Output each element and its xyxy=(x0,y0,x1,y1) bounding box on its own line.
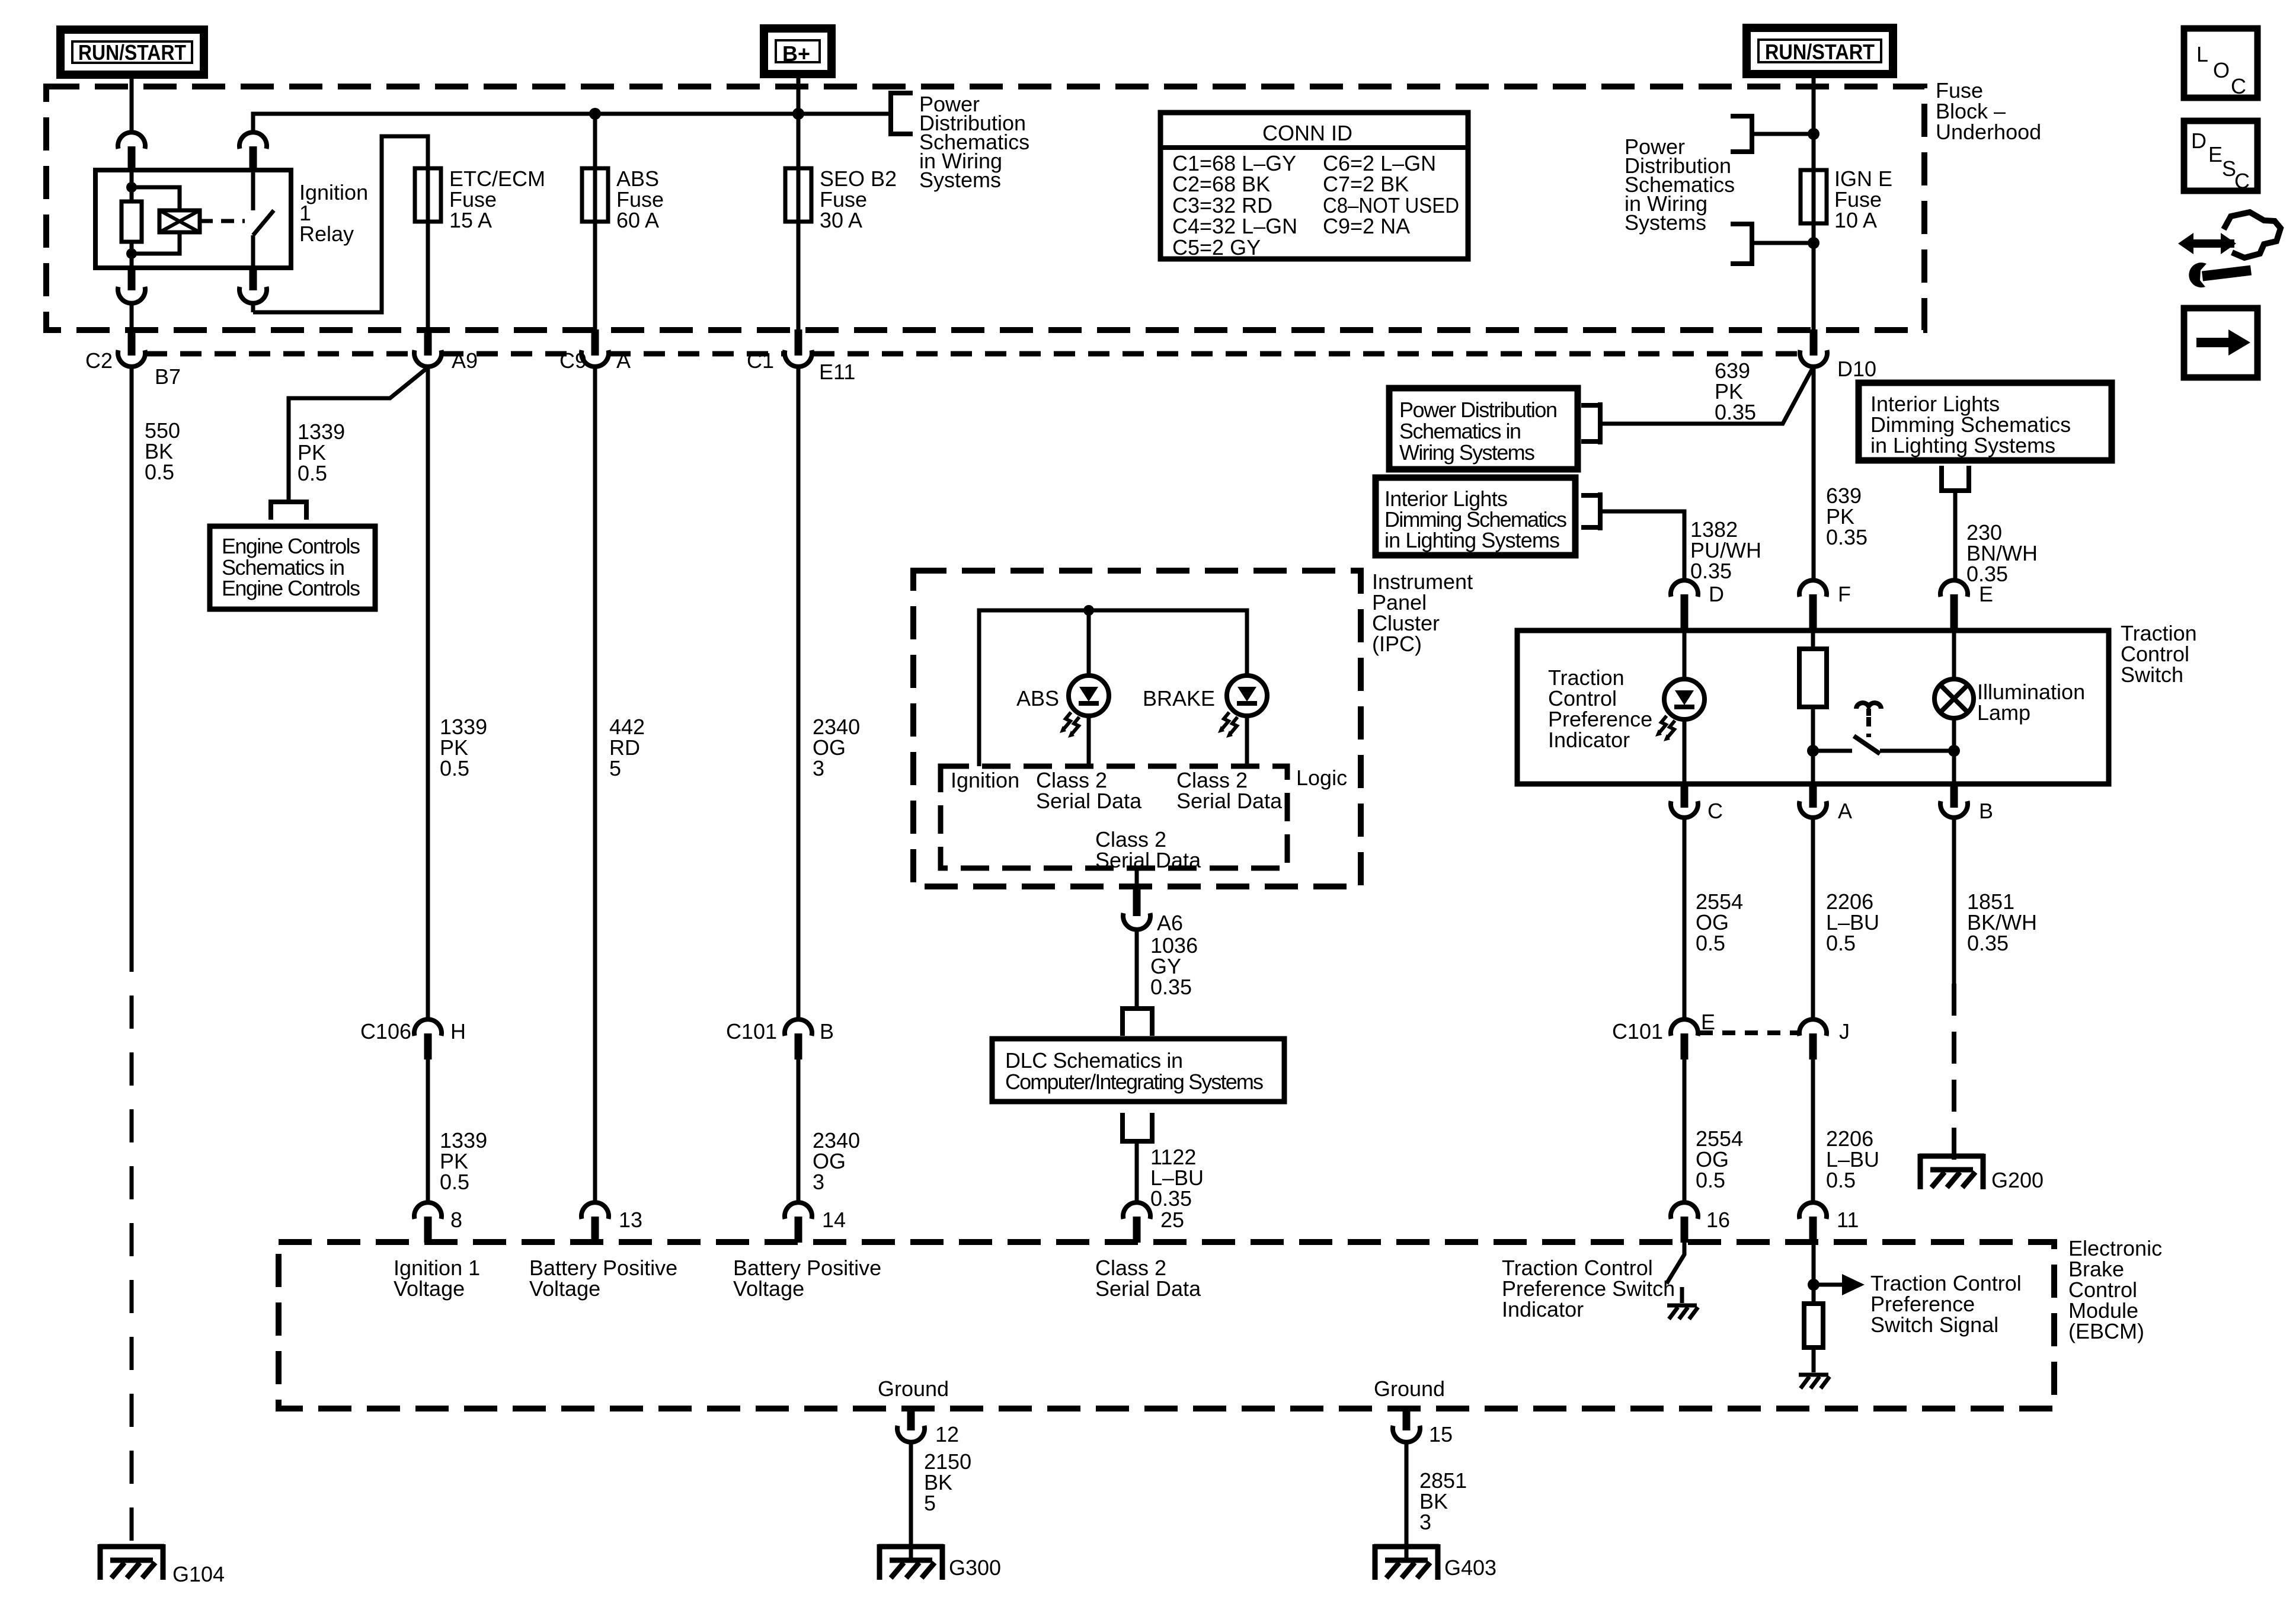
relay coil branch wires xyxy=(132,170,180,268)
connector C1/E11 xyxy=(747,329,855,384)
svg-text:C4=32 L–GN: C4=32 L–GN xyxy=(1172,214,1297,238)
C101 jumper dotted line xyxy=(1700,1030,1799,1035)
EBCM switch lower stub xyxy=(1680,1287,1684,1303)
wire C101 J to EBCM pin 11 xyxy=(1811,1060,1815,1202)
wire 1382 PU/WH label xyxy=(1690,517,1761,583)
traction control preference switch indicator label xyxy=(1502,1256,1675,1321)
svg-text:A: A xyxy=(616,348,631,373)
svg-text:0.5: 0.5 xyxy=(145,460,174,484)
svg-text:0.5: 0.5 xyxy=(1696,931,1725,955)
wire C to C101 E xyxy=(1683,818,1687,1019)
staple bracket to Engine Controls xyxy=(268,502,309,520)
IGN E fuse label xyxy=(1834,167,1892,232)
wrench icon xyxy=(2189,263,2251,287)
node switch signal xyxy=(1808,1279,1819,1291)
SEO B2 fuse xyxy=(785,168,811,222)
svg-text:0.5: 0.5 xyxy=(1826,1168,1856,1192)
traction control preference indicator label xyxy=(1548,665,1652,752)
svg-text:0.5: 0.5 xyxy=(440,1170,469,1194)
EBCM switch blade xyxy=(1667,1243,1684,1283)
svg-text:D10: D10 xyxy=(1837,357,1876,381)
svg-text:B+: B+ xyxy=(782,41,810,66)
B+ power label box xyxy=(764,28,832,74)
wire 550 BK dashed to G104 xyxy=(130,939,134,1560)
Fuse Block - Underhood dashed box xyxy=(46,87,1924,330)
wire bus to SEO B2 fuse xyxy=(797,114,801,331)
ABS fuse label xyxy=(616,167,664,232)
wire C101 B to EBCM pin 14 xyxy=(797,1060,801,1202)
Class 2 Serial Data label (left) xyxy=(1036,768,1142,813)
svg-text:(EBCM): (EBCM) xyxy=(2068,1319,2144,1343)
svg-text:8: 8 xyxy=(450,1208,462,1232)
Class 2 Serial Data label (center) xyxy=(1095,827,1201,872)
reference bracket to Power Distribution (top left) xyxy=(891,91,913,136)
Traction Control Switch box xyxy=(1517,630,2109,784)
relay label xyxy=(299,180,368,246)
svg-text:5: 5 xyxy=(924,1491,936,1515)
relay switch contact and blade xyxy=(253,170,274,268)
node bus-ABS xyxy=(589,108,601,120)
svg-text:3: 3 xyxy=(813,1170,824,1194)
svg-text:Voltage: Voltage xyxy=(529,1276,600,1301)
wire 2150 BK to G300 xyxy=(909,1442,913,1560)
svg-text:0.35: 0.35 xyxy=(1150,1186,1192,1211)
ground G403 xyxy=(1374,1544,1496,1580)
wire B solid xyxy=(1952,818,1956,984)
svg-text:12: 12 xyxy=(935,1422,959,1446)
connector pin 14 xyxy=(785,1202,846,1243)
node relay coil top xyxy=(126,182,137,193)
svg-text:C106: C106 xyxy=(360,1019,411,1044)
wire 639 PK label (upper) xyxy=(1715,359,1756,424)
svg-text:Schematics in: Schematics in xyxy=(1399,419,1521,443)
svg-text:0.35: 0.35 xyxy=(1150,975,1192,999)
DLC reference box xyxy=(992,1039,1284,1102)
wire resistor to ground xyxy=(1812,1347,1816,1372)
wire bus to ABS fuse xyxy=(593,114,597,331)
svg-text:DLC Schematics in: DLC Schematics in xyxy=(1005,1048,1183,1073)
svg-text:RUN/START: RUN/START xyxy=(1765,40,1875,64)
wire 2851 BK label xyxy=(1419,1468,1467,1534)
wire to upper right bracket xyxy=(1752,132,1814,136)
connector C xyxy=(1671,784,1723,823)
svg-text:F: F xyxy=(1838,582,1851,606)
traction control preference switch signal label xyxy=(1870,1271,2022,1337)
svg-text:C: C xyxy=(2234,169,2250,193)
Electronic Brake Control Module dashed box xyxy=(279,1242,2054,1409)
RUN/START power label box (right) xyxy=(1747,28,1893,74)
svg-text:C7=2 BK: C7=2 BK xyxy=(1323,172,1409,196)
node switch left xyxy=(1807,745,1819,757)
ground G200 xyxy=(1919,1154,2044,1192)
wire 1122 L-BU label xyxy=(1150,1145,1204,1211)
svg-text:0.5: 0.5 xyxy=(298,461,327,485)
wire D10 to F xyxy=(1812,367,1816,579)
ignition 1 relay box xyxy=(95,170,291,268)
wire 639 PK label (lower) xyxy=(1826,484,1868,549)
svg-text:G104: G104 xyxy=(172,1562,225,1586)
svg-text:Switch: Switch xyxy=(2121,662,2183,687)
svg-text:11: 11 xyxy=(1837,1208,1859,1232)
LOC icon box xyxy=(2184,28,2257,98)
ground G300 xyxy=(878,1544,1001,1580)
Class 2 Serial Data label (right) xyxy=(1176,768,1283,813)
svg-text:C101: C101 xyxy=(1612,1019,1663,1044)
wire 230 BN/WH label xyxy=(1966,520,2038,586)
connector pin 16 xyxy=(1671,1202,1730,1243)
svg-text:14: 14 xyxy=(822,1208,846,1232)
wire C106 to EBCM pin 8 xyxy=(426,1060,430,1202)
Interior Lights Dimming reference box (right) xyxy=(1859,383,2112,460)
EBCM internal ground xyxy=(1799,1375,1830,1388)
wire C101 E to EBCM pin 16 xyxy=(1683,1060,1687,1202)
wire 1339 PK branch label xyxy=(298,420,345,485)
connector D xyxy=(1671,580,1724,630)
wire 2206 L-BU label (lower) xyxy=(1826,1126,1879,1192)
svg-text:CONN ID: CONN ID xyxy=(1262,121,1352,145)
connector pin 13 xyxy=(581,1202,642,1243)
switch signal arrow xyxy=(1814,1274,1865,1295)
svg-text:Serial Data: Serial Data xyxy=(1095,1276,1201,1301)
svg-text:E: E xyxy=(1979,582,1993,606)
wire 1339 PK label (mid) xyxy=(440,715,487,780)
traction control preference indicator LED xyxy=(1655,679,1705,741)
svg-text:Systems: Systems xyxy=(919,168,1001,192)
svg-text:Underhood: Underhood xyxy=(1936,120,2041,144)
Power Distribution Schematics reference box xyxy=(1389,388,1578,469)
svg-text:Relay: Relay xyxy=(299,222,354,246)
svg-text:Power Distribution: Power Distribution xyxy=(1399,398,1558,422)
wire RUN/START right to IGN E fuse xyxy=(1812,74,1816,331)
connector F xyxy=(1799,580,1851,630)
svg-text:O: O xyxy=(2213,58,2230,82)
svg-text:0.5: 0.5 xyxy=(1826,931,1856,955)
switch contact line left xyxy=(1813,749,1852,753)
switch pull symbol xyxy=(1856,703,1881,716)
Engine Controls reference box xyxy=(210,526,375,609)
switch contact line right xyxy=(1880,749,1954,753)
IPC internal bus xyxy=(979,610,1247,766)
connector pin 25 xyxy=(1123,1202,1184,1243)
wire 2206 L-BU label (upper) xyxy=(1826,889,1879,955)
next-page arrow icon box xyxy=(2184,308,2257,377)
wire DLC to EBCM pin 25 xyxy=(1135,1141,1139,1202)
connector E xyxy=(1940,580,1993,630)
DESC icon box xyxy=(2184,121,2257,193)
Logic dashed box xyxy=(941,766,1287,868)
wire logic to A6 xyxy=(1135,868,1139,886)
wire Interior Lights to E xyxy=(1953,491,1958,579)
switch actuation dashes xyxy=(1866,717,1871,737)
Power Distribution Schematics note (top left) xyxy=(919,92,1029,192)
wire to lower right bracket xyxy=(1752,241,1814,245)
connector C2/B7 xyxy=(85,329,181,389)
wire pin 11 to node xyxy=(1812,1243,1816,1304)
staple bracket to DLC box xyxy=(1120,1009,1155,1036)
svg-text:in Lighting Systems: in Lighting Systems xyxy=(1870,433,2055,457)
staple bracket from Interior Lights box (right) xyxy=(1939,466,1971,491)
svg-text:C9=2 NA: C9=2 NA xyxy=(1323,214,1410,238)
wire 1851 BK/WH label xyxy=(1967,889,2037,955)
relay actuation dashed link xyxy=(200,219,245,223)
Ignition 1 Voltage label xyxy=(394,1256,480,1301)
svg-text:Serial Data: Serial Data xyxy=(1176,789,1283,813)
connector pin 12 xyxy=(897,1407,959,1446)
wire A to C101 J xyxy=(1811,818,1815,1019)
Instrument Panel Cluster dashed box xyxy=(913,571,1361,886)
svg-text:G403: G403 xyxy=(1444,1555,1496,1580)
svg-text:B: B xyxy=(1979,799,1993,823)
wire 1036 GY label xyxy=(1150,933,1198,999)
svg-text:G200: G200 xyxy=(1991,1168,2044,1192)
svg-text:Engine Controls: Engine Controls xyxy=(222,534,360,558)
node IPC bus xyxy=(1083,605,1094,616)
wire ABS indicator xyxy=(1087,610,1091,766)
connector A xyxy=(1799,784,1852,823)
relay switch-side top terminal xyxy=(239,132,267,170)
diagnostic car icon xyxy=(2178,212,2281,258)
connector C101/B xyxy=(726,1019,834,1060)
switch blade xyxy=(1854,736,1880,754)
node bus-B+ xyxy=(792,108,804,120)
wire D to indicator xyxy=(1683,630,1687,784)
illumination lamp label xyxy=(1977,680,2085,725)
svg-text:Ground: Ground xyxy=(878,1377,949,1401)
svg-text:30 A: 30 A xyxy=(820,208,862,232)
connector pin 15 xyxy=(1393,1407,1453,1446)
svg-text:BRAKE: BRAKE xyxy=(1143,686,1215,710)
SEO B2 fuse label xyxy=(820,167,897,232)
connector pin 8 xyxy=(414,1202,462,1243)
connector C101 J xyxy=(1799,1019,1850,1060)
staple bracket from DLC box xyxy=(1120,1113,1155,1141)
svg-text:Voltage: Voltage xyxy=(733,1276,804,1301)
wire C9 to EBCM pin 13 xyxy=(593,367,597,1202)
Power Distribution Schematics note (top right) xyxy=(1625,135,1735,235)
svg-text:Systems: Systems xyxy=(1625,210,1706,235)
Battery Positive Voltage label (14) xyxy=(733,1256,881,1301)
ABS fuse xyxy=(582,168,608,222)
svg-text:C2: C2 xyxy=(85,348,113,373)
svg-text:Ignition: Ignition xyxy=(951,768,1019,792)
wire 2150 BK label xyxy=(924,1449,971,1515)
wire 2554 OG label (upper) xyxy=(1696,889,1743,955)
svg-text:(IPC): (IPC) xyxy=(1372,632,1422,656)
svg-text:3: 3 xyxy=(813,756,824,780)
svg-text:25: 25 xyxy=(1160,1208,1184,1232)
svg-text:G300: G300 xyxy=(949,1555,1001,1580)
IPC label xyxy=(1372,569,1473,656)
reference bracket upper (Power Distribution right) xyxy=(1731,114,1752,154)
svg-text:0.35: 0.35 xyxy=(1690,559,1732,583)
svg-text:D: D xyxy=(1709,582,1724,606)
svg-text:C9: C9 xyxy=(559,348,587,373)
svg-text:E11: E11 xyxy=(819,360,855,384)
bus wire from relay switch to bracket xyxy=(253,114,888,130)
svg-text:Computer/Integrating Systems: Computer/Integrating Systems xyxy=(1005,1070,1264,1094)
node switch right xyxy=(1948,745,1960,757)
connector D10 xyxy=(1800,329,1876,381)
relay coil xyxy=(159,210,200,232)
svg-text:C: C xyxy=(2231,74,2246,98)
connector C9/A xyxy=(559,329,631,373)
relay resistor xyxy=(121,201,142,242)
svg-text:H: H xyxy=(450,1019,466,1044)
ETC/ECM fuse label xyxy=(449,167,545,232)
svg-text:A9: A9 xyxy=(452,348,478,373)
Battery Positive Voltage label (13) xyxy=(529,1256,677,1301)
svg-text:Indicator: Indicator xyxy=(1548,728,1630,752)
svg-text:15: 15 xyxy=(1429,1422,1453,1446)
connector pin 11 xyxy=(1799,1202,1859,1243)
connector A6 xyxy=(1123,886,1183,935)
EBCM switch ground xyxy=(1667,1305,1698,1319)
reference bracket for Interior Lights box (left) xyxy=(1581,492,1600,530)
relay switch-side bottom terminal xyxy=(239,268,267,303)
Interior Lights Dimming reference box (left) xyxy=(1376,478,1575,555)
wire 1339 PK label (lower) xyxy=(440,1128,487,1194)
wire 2851 BK to G403 xyxy=(1405,1442,1409,1560)
ABS indicator LED xyxy=(1060,676,1109,738)
ETC/ECM fuse xyxy=(415,168,441,222)
EBCM resistor xyxy=(1804,1304,1823,1347)
wire 2554 OG label (lower) xyxy=(1696,1126,1743,1192)
wire RUN/START to relay coil pin xyxy=(130,75,134,131)
wire C1 to C101 B xyxy=(797,367,801,1019)
connector A9 xyxy=(414,329,478,373)
BRAKE indicator LED xyxy=(1218,676,1267,738)
wire A6 to DLC bracket xyxy=(1135,930,1139,1007)
svg-text:C2=68 BK: C2=68 BK xyxy=(1172,172,1270,196)
Traction Control Switch label xyxy=(2121,621,2197,687)
svg-text:Logic: Logic xyxy=(1296,766,1347,790)
IGN E fuse xyxy=(1801,170,1827,223)
svg-text:B7: B7 xyxy=(155,364,181,389)
wire 2340 OG label (upper) xyxy=(813,715,860,780)
wire 550 BK label xyxy=(145,418,180,484)
svg-text:C101: C101 xyxy=(726,1019,777,1044)
wire B dashed to G200 xyxy=(1952,984,1956,1169)
svg-text:in Lighting Systems: in Lighting Systems xyxy=(1384,528,1560,552)
svg-text:0.35: 0.35 xyxy=(1715,400,1756,424)
CONN ID table xyxy=(1160,113,1468,260)
wire 550 BK solid xyxy=(130,367,134,939)
svg-text:0.35: 0.35 xyxy=(1967,931,2009,955)
svg-text:E: E xyxy=(1701,1010,1715,1034)
wire relay switch output to ETC/ECM fuse xyxy=(253,136,428,331)
svg-text:E: E xyxy=(2208,142,2223,167)
svg-text:15 A: 15 A xyxy=(449,208,492,232)
svg-text:16: 16 xyxy=(1706,1208,1730,1232)
EBCM label xyxy=(2068,1236,2162,1343)
wire BRAKE indicator xyxy=(1245,716,1249,766)
wire Power Distribution branch xyxy=(1600,369,1812,424)
Class 2 Serial Data label (25) xyxy=(1095,1256,1201,1301)
svg-text:5: 5 xyxy=(609,756,621,780)
svg-text:C: C xyxy=(1707,799,1723,823)
illumination lamp xyxy=(1934,679,1974,718)
svg-text:0.5: 0.5 xyxy=(440,756,469,780)
connector B xyxy=(1940,784,1993,823)
svg-text:J: J xyxy=(1839,1019,1850,1044)
svg-text:Lamp: Lamp xyxy=(1977,700,2030,725)
harness dotted line xyxy=(146,351,1799,357)
svg-text:Indicator: Indicator xyxy=(1502,1297,1584,1321)
switch resistor xyxy=(1799,649,1827,707)
relay coil-side bottom terminal xyxy=(118,268,145,303)
connector C106/H xyxy=(360,1019,466,1060)
wire Interior Lights to D xyxy=(1600,511,1684,579)
reference bracket lower (Power Distribution right) xyxy=(1731,222,1752,266)
wire 2340 OG label (lower) xyxy=(813,1128,860,1194)
svg-text:L: L xyxy=(2196,42,2208,66)
A9 branch diagonal to Engine Controls xyxy=(289,367,428,501)
svg-text:3: 3 xyxy=(1419,1510,1431,1534)
wire relay coil bottom to C2 xyxy=(130,303,134,331)
svg-text:A: A xyxy=(1838,799,1852,823)
svg-text:Ground: Ground xyxy=(1374,1377,1445,1401)
svg-text:B: B xyxy=(820,1019,834,1044)
svg-text:C1: C1 xyxy=(747,348,774,373)
ground G104 xyxy=(99,1544,225,1586)
connector C101 E xyxy=(1612,1010,1715,1060)
node relay coil bottom xyxy=(126,248,137,259)
svg-text:Engine Controls: Engine Controls xyxy=(222,576,360,600)
svg-text:D: D xyxy=(2191,129,2207,153)
svg-text:13: 13 xyxy=(619,1208,642,1232)
svg-text:Serial Data: Serial Data xyxy=(1036,789,1142,813)
svg-text:C5=2 GY: C5=2 GY xyxy=(1172,235,1261,260)
wire B+ to bus xyxy=(797,74,801,114)
svg-text:Wiring Systems: Wiring Systems xyxy=(1399,440,1535,465)
wire F through resistor to switch xyxy=(1811,630,1815,784)
wire A9 to C106 xyxy=(426,367,430,1019)
svg-text:A6: A6 xyxy=(1157,911,1183,935)
RUN/START power label box (left) xyxy=(60,30,204,75)
svg-text:0.5: 0.5 xyxy=(1696,1168,1725,1192)
node IGN E top xyxy=(1808,128,1819,140)
svg-text:RUN/START: RUN/START xyxy=(78,40,186,65)
node IGN E bottom xyxy=(1808,237,1819,249)
svg-text:0.35: 0.35 xyxy=(1826,525,1868,549)
wire E to illumination lamp xyxy=(1952,630,1956,784)
wire 442 RD label xyxy=(609,715,645,780)
svg-text:Switch Signal: Switch Signal xyxy=(1870,1313,1998,1337)
svg-text:60 A: 60 A xyxy=(616,208,659,232)
svg-text:Serial Data: Serial Data xyxy=(1095,848,1201,872)
relay coil-side top terminal xyxy=(118,132,145,170)
svg-text:ABS: ABS xyxy=(1016,686,1059,710)
reference bracket for Power Distribution box xyxy=(1581,402,1600,444)
svg-text:Voltage: Voltage xyxy=(394,1276,465,1301)
svg-text:10 A: 10 A xyxy=(1834,208,1877,232)
